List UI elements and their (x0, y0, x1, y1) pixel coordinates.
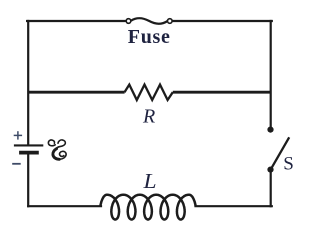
svg-text:S: S (283, 154, 294, 175)
svg-text:R: R (142, 105, 155, 127)
svg-text:L: L (142, 169, 156, 193)
svg-text:Fuse: Fuse (128, 26, 171, 48)
